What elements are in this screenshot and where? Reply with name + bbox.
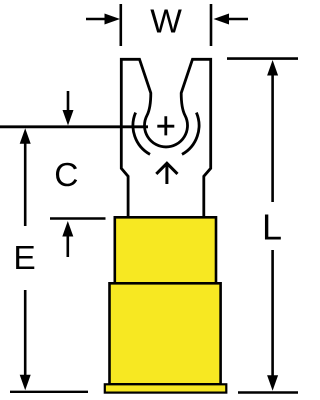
E dimension line lower with down arrow xyxy=(20,290,31,390)
spring arc left xyxy=(133,113,150,155)
L dimension line upper with up arrow xyxy=(267,60,278,202)
svg-text:W: W xyxy=(150,4,182,41)
W dimension arrow right xyxy=(214,14,249,25)
center mark plus xyxy=(157,116,174,135)
svg-text:L: L xyxy=(262,207,282,248)
L extension line top xyxy=(227,57,298,60)
E dimension line upper with up arrow xyxy=(20,128,31,226)
svg-text:C: C xyxy=(54,157,78,194)
insulation flange xyxy=(105,384,227,392)
W extension line right xyxy=(210,4,213,46)
spring arc right xyxy=(182,113,199,155)
C dimension arrow up xyxy=(62,221,73,257)
L dimension line lower with down arrow xyxy=(267,250,278,391)
E extension line bottom xyxy=(10,391,88,393)
insulation sleeve lower xyxy=(110,283,221,384)
C extension line bottom xyxy=(50,217,106,220)
W dimension arrow left xyxy=(86,14,120,25)
L extension line bottom xyxy=(238,391,298,393)
tongue direction arrow xyxy=(156,163,177,184)
W extension line left xyxy=(120,4,123,46)
metal fork terminal body outline xyxy=(121,59,210,219)
insulation sleeve upper xyxy=(115,217,216,283)
C dimension arrow down xyxy=(63,91,74,126)
svg-text:E: E xyxy=(13,240,35,277)
centerline through tongue xyxy=(0,125,148,128)
